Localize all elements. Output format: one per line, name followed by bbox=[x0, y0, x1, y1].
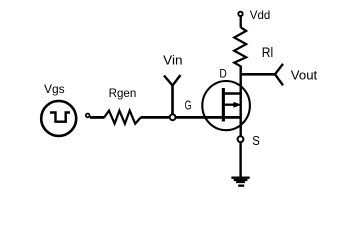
connector Vout bbox=[275, 64, 283, 86]
terminal node of Vgs bbox=[86, 114, 90, 118]
svg-text:Vin: Vin bbox=[163, 53, 182, 68]
wire (gate) bbox=[173, 116, 242, 119]
svg-text:D: D bbox=[219, 67, 227, 81]
power terminal Vdd bbox=[238, 12, 242, 16]
ground bbox=[231, 177, 249, 187]
svg-text:Vout: Vout bbox=[291, 67, 318, 82]
resistor Rl bbox=[234, 27, 246, 66]
svg-text:Vdd: Vdd bbox=[250, 8, 270, 22]
wire bbox=[90, 116, 105, 119]
voltage source Vgs bbox=[41, 101, 76, 136]
svg-text:S: S bbox=[252, 133, 260, 148]
svg-text:Vgs: Vgs bbox=[44, 82, 65, 96]
node S bbox=[238, 136, 244, 142]
connector Vin bbox=[164, 75, 181, 117]
wire bbox=[141, 116, 173, 119]
wire (drain-source line) bbox=[239, 66, 241, 136]
wire (output) bbox=[241, 73, 276, 76]
wire (to ground) bbox=[239, 142, 241, 178]
svg-text:Rl: Rl bbox=[262, 44, 273, 60]
transistor Q1 bbox=[202, 81, 250, 130]
node G junction bbox=[170, 114, 176, 120]
svg-text:G: G bbox=[185, 97, 192, 112]
svg-text:Rgen: Rgen bbox=[109, 86, 137, 100]
wire bbox=[240, 16, 242, 28]
resistor Rgen bbox=[104, 111, 140, 124]
